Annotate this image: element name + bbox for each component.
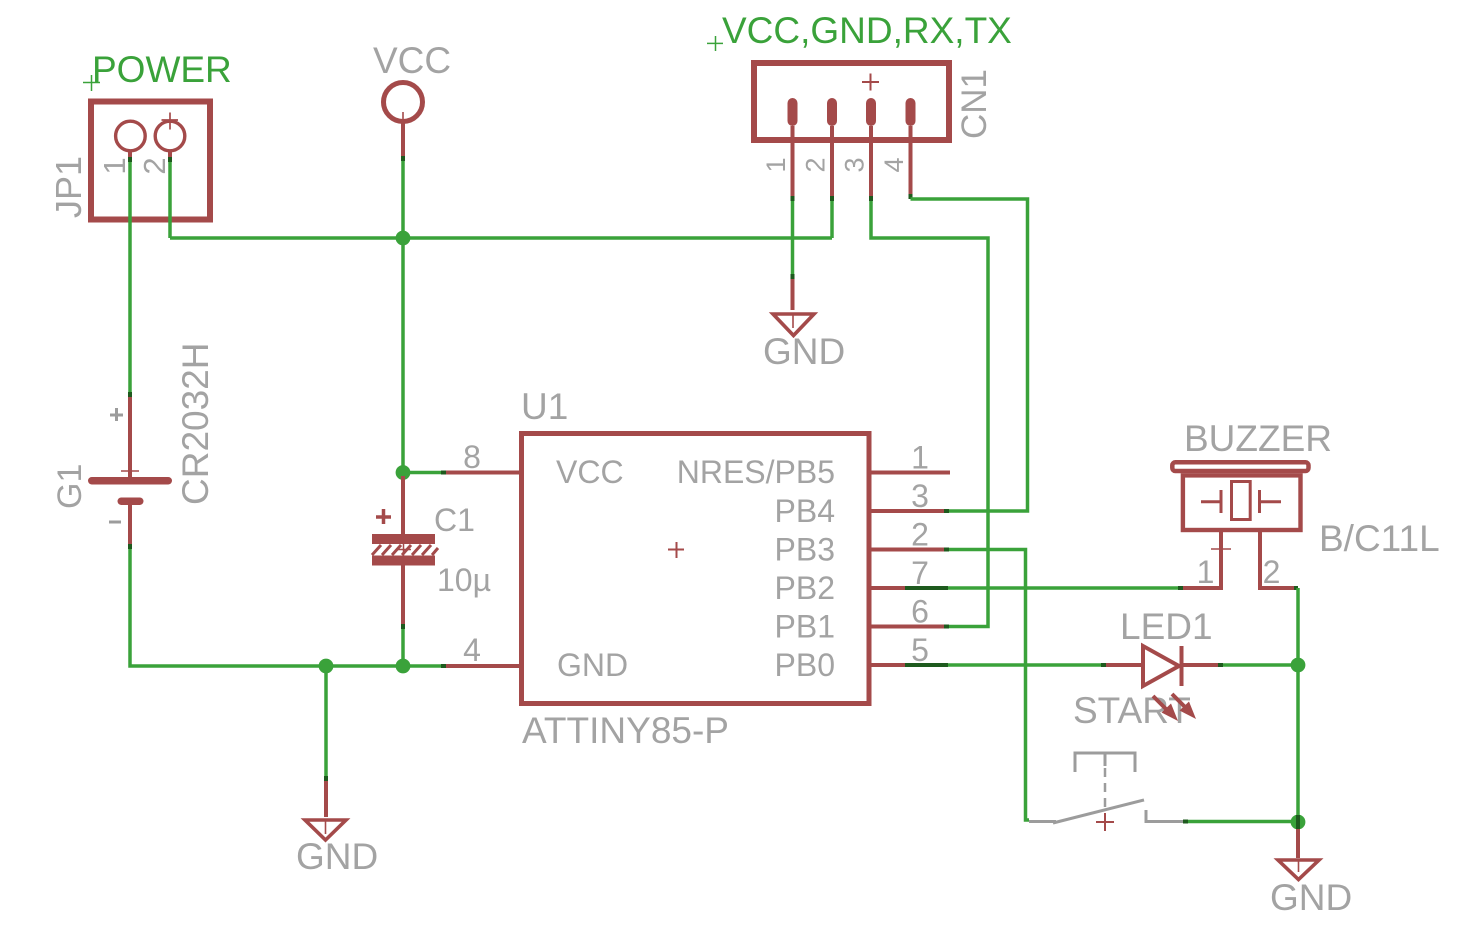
- svg-text:POWER: POWER: [92, 49, 232, 90]
- label 10u: [437, 562, 491, 598]
- svg-text:VCC: VCC: [373, 40, 451, 81]
- ground symbol CN1: [773, 314, 814, 336]
- wire C1 bottom to GND rail: [401, 629, 405, 666]
- svg-text:NRES/PB5: NRES/PB5: [677, 454, 835, 490]
- pin name GND: [557, 647, 628, 683]
- battery G1: [88, 392, 172, 549]
- wire JP1-1 to battery: [128, 162, 132, 392]
- svg-text:4: 4: [463, 632, 481, 668]
- wire switch to GND corner: [1183, 820, 1298, 824]
- origin cross CN1 label: [707, 36, 723, 51]
- svg-text:1: 1: [1197, 554, 1215, 590]
- svg-text:3: 3: [840, 157, 870, 172]
- junction GND rail at C1: [396, 659, 411, 674]
- origin cross U1: [668, 542, 684, 558]
- wire GND branch down: [324, 666, 328, 817]
- label LED1: [1120, 606, 1213, 647]
- pin stub PB0 (pin 5): [869, 663, 948, 667]
- svg-text:1: 1: [761, 157, 791, 172]
- pin number 7 (U1): [911, 555, 929, 591]
- label VCC (net): [373, 40, 451, 81]
- pin number 6 (U1): [911, 594, 929, 630]
- svg-text:LED1: LED1: [1120, 606, 1213, 647]
- svg-text:B/C11L: B/C11L: [1319, 518, 1440, 559]
- svg-text:1: 1: [97, 157, 132, 174]
- wire to U1 VCC pin: [403, 471, 446, 475]
- label GND right: [1270, 877, 1352, 918]
- junction at C1 top: [396, 465, 411, 480]
- svg-text:C1: C1: [434, 502, 475, 538]
- origin cross CN1: [862, 74, 879, 91]
- svg-text:2: 2: [137, 157, 172, 174]
- pad CN1-4: [906, 98, 916, 199]
- capacitor C1: [372, 476, 438, 629]
- svg-text:4: 4: [879, 157, 909, 172]
- svg-text:PB2: PB2: [775, 570, 835, 606]
- wire PB0 to LED anode: [948, 663, 1143, 667]
- ground symbol right: [1278, 860, 1319, 880]
- svg-text:5: 5: [911, 632, 929, 668]
- wire VCC rail horizontal: [170, 236, 832, 240]
- wire JP1-2 down to VCC rail: [168, 162, 172, 238]
- svg-text:VCC: VCC: [556, 454, 624, 490]
- wire VCC symbol to rail: [401, 161, 405, 238]
- pin number 4 (CN1): [879, 157, 909, 172]
- supply symbol VCC: [384, 83, 423, 162]
- pin name PB2: [775, 570, 835, 606]
- svg-text:2: 2: [1263, 554, 1281, 590]
- ground symbol left: [305, 820, 346, 840]
- wire junction to GND symbol: [1296, 815, 1300, 858]
- pad CN1-2: [827, 98, 837, 201]
- label VCC,GND,RX,TX: [722, 10, 1012, 51]
- pin number 2 (U1): [911, 517, 929, 553]
- pin stub JP1-1: [128, 151, 132, 162]
- label POWER: [92, 49, 232, 90]
- connector JP1: [91, 102, 210, 220]
- wire CN1-3 to PB1: [871, 201, 988, 627]
- svg-text:JP1: JP1: [48, 156, 89, 218]
- label GND left: [296, 836, 378, 877]
- svg-text:GND: GND: [1270, 877, 1352, 918]
- pin name PB3: [775, 532, 835, 568]
- svg-text:PB4: PB4: [775, 493, 835, 529]
- pin number 2 (JP1): [137, 157, 172, 174]
- connector CN1: [754, 63, 949, 140]
- label CR2032H: [175, 343, 216, 505]
- junction GND rail left: [319, 659, 334, 674]
- svg-text:2: 2: [801, 157, 831, 172]
- wire VCC rail down to U1 pin8 row: [401, 238, 405, 473]
- label BUZZER: [1184, 418, 1332, 459]
- svg-text:10µ: 10µ: [437, 562, 491, 598]
- junction VCC rail: [396, 231, 411, 246]
- svg-text:PB0: PB0: [775, 647, 835, 683]
- label GND (CN1): [763, 331, 845, 372]
- pin number 1 (buzzer): [1197, 554, 1215, 590]
- label ATTINY85-P: [522, 710, 729, 751]
- svg-text:GND: GND: [763, 331, 845, 372]
- pin stub PB3 (pin 2): [869, 548, 949, 552]
- pin name NRES/PB5: [677, 454, 835, 490]
- LED arrows: [1153, 694, 1196, 721]
- svg-text:ATTINY85-P: ATTINY85-P: [522, 710, 729, 751]
- pad CN1-1: [788, 98, 798, 201]
- svg-text:1: 1: [911, 440, 929, 476]
- pin number 1 (JP1): [97, 157, 132, 174]
- svg-text:6: 6: [911, 594, 929, 630]
- svg-text:7: 7: [911, 555, 929, 591]
- pin buzzer 1: [1211, 530, 1231, 590]
- svg-text:PB1: PB1: [775, 609, 835, 645]
- wire GND rail to C1 junction: [326, 664, 441, 668]
- wire LED cathode: [1182, 663, 1299, 667]
- label C1: [434, 502, 475, 538]
- label CN1: [955, 69, 994, 139]
- junction bottom right: [1291, 815, 1306, 830]
- pin number 2 (CN1): [801, 157, 831, 172]
- label U1: [521, 386, 568, 427]
- pin buzzer 2: [1260, 530, 1298, 588]
- pin stub PB1 (pin 6): [869, 625, 949, 629]
- svg-text:8: 8: [463, 439, 481, 475]
- switch START: [1029, 753, 1183, 823]
- pin stub U1 VCC (pin 8): [446, 471, 521, 475]
- pin name PB1: [775, 609, 835, 645]
- IC U1 ATTINY85-P: [522, 434, 870, 704]
- junction LED cathode: [1291, 658, 1306, 673]
- pin number 8: [463, 439, 481, 475]
- pin stub PB4 (pin 3): [869, 509, 949, 513]
- svg-text:GND: GND: [296, 836, 378, 877]
- pin name PB4: [775, 493, 835, 529]
- wire PB2 to buzzer pin1: [948, 586, 1221, 590]
- svg-text:CR2032H: CR2032H: [175, 343, 216, 505]
- label + (battery): [110, 408, 123, 421]
- svg-text:GND: GND: [557, 647, 628, 683]
- svg-text:BUZZER: BUZZER: [1184, 418, 1332, 459]
- pin name PB0: [775, 647, 835, 683]
- buzzer B/C11L: [1172, 462, 1308, 530]
- label G1: [51, 464, 89, 509]
- pin number 1 (CN1): [761, 157, 791, 172]
- wire PB3 to switch: [949, 550, 1029, 821]
- wire buzzer pin2 down: [1296, 588, 1300, 822]
- svg-text:CN1: CN1: [955, 69, 994, 139]
- wire battery to GND rail: [130, 549, 326, 666]
- label START: [1073, 690, 1191, 731]
- svg-text:VCC,GND,RX,TX: VCC,GND,RX,TX: [722, 10, 1012, 51]
- svg-text:3: 3: [911, 478, 929, 514]
- wire CN1-4 to PB4: [911, 199, 1028, 511]
- svg-text:PB3: PB3: [775, 532, 835, 568]
- wire CN1-2 to VCC rail: [830, 201, 834, 238]
- label JP1: [48, 156, 89, 218]
- origin cross POWER: [83, 75, 100, 91]
- pin number 3 (U1): [911, 478, 929, 514]
- LED LED1: [1143, 646, 1182, 686]
- pin stub NRES/PB5 (pin 1): [869, 471, 950, 475]
- origin cross switch: [1096, 813, 1114, 831]
- pin number 2 (buzzer): [1263, 554, 1281, 590]
- origin cross JP1 pin2: [162, 113, 179, 130]
- pin stub U1 GND (pin 4): [441, 664, 521, 668]
- pin number 5 (U1): [911, 632, 929, 668]
- label + (C1): [376, 509, 391, 524]
- pad CN1-3: [866, 98, 876, 201]
- svg-text:G1: G1: [51, 464, 89, 509]
- wire CN1-1 to GND: [791, 201, 795, 310]
- pin stub PB2 (pin 7): [869, 586, 948, 590]
- pin number 4: [463, 632, 481, 668]
- pin name VCC: [556, 454, 624, 490]
- svg-text:U1: U1: [521, 386, 568, 427]
- pin stub JP1-2: [168, 151, 172, 162]
- label - (battery): [109, 521, 121, 524]
- pin number 3 (CN1): [840, 157, 870, 172]
- label B/C11L: [1319, 518, 1440, 559]
- svg-text:2: 2: [911, 517, 929, 553]
- pin number 1 (U1): [911, 440, 929, 476]
